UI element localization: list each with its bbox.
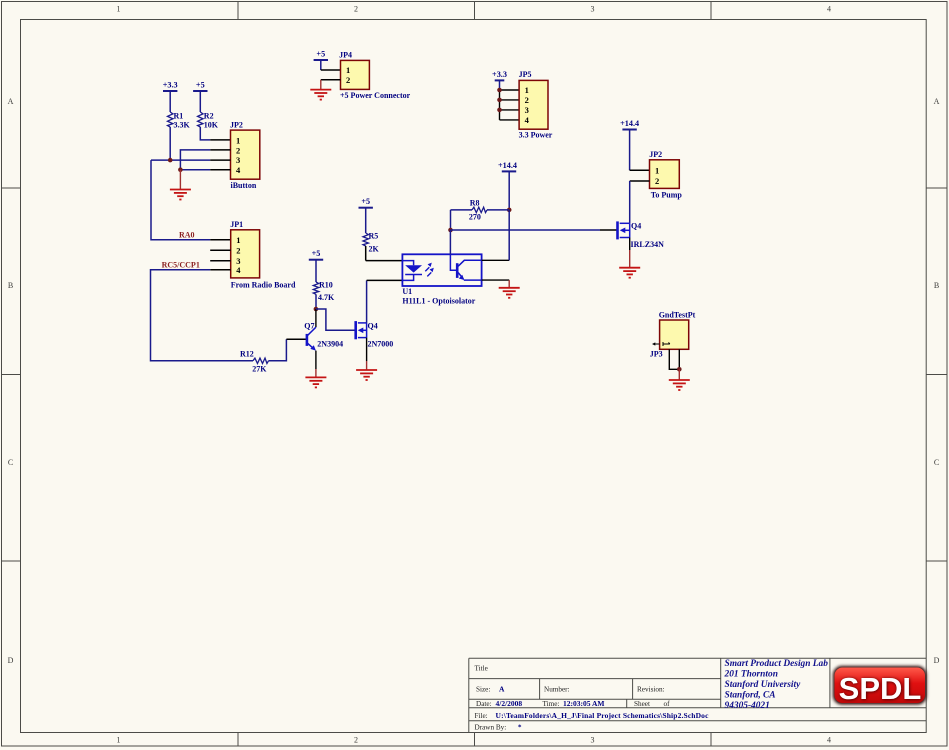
svg-text:4: 4 (236, 265, 241, 275)
wire Q6 drain to opto cathode (367, 280, 403, 323)
svg-text:GndTestPt: GndTestPt (659, 311, 696, 320)
power +5 (R5) (359, 197, 373, 233)
svg-text:1: 1 (117, 736, 121, 745)
wire gate node to U1 base (449, 230, 451, 254)
pin JP1-3 stub (210, 260, 231, 262)
svg-text:2K: 2K (369, 245, 380, 254)
svg-text:R1: R1 (174, 112, 184, 121)
svg-text:2: 2 (354, 5, 358, 14)
junction JP5 pin1 (497, 88, 502, 93)
junction at iButton gnd (178, 167, 183, 172)
svg-text:D: D (8, 656, 14, 665)
svg-text:JP1: JP1 (230, 220, 243, 229)
wire JP2 pin4 (180, 169, 230, 171)
resistor R1 (168, 112, 191, 130)
op-amp U1 H11L1 optoisolator box (402, 254, 481, 305)
svg-text:D: D (934, 656, 940, 665)
svg-text:Title: Title (475, 665, 488, 673)
U1 LED (402, 261, 422, 281)
wire JP3 gnd stem (678, 369, 680, 380)
svg-text:27K: 27K (252, 365, 267, 374)
pin JP1-2 stub (210, 249, 231, 251)
svg-text:U:\TeamFolders\A_H_J\Final Pro: U:\TeamFolders\A_H_J\Final Project Schem… (496, 711, 710, 720)
ground iButton (170, 190, 191, 200)
pin JP3-1 marker (652, 342, 670, 346)
wire JP5 pin3 (500, 109, 520, 111)
transistor Q6 2N7000 (mosfet) (356, 321, 394, 348)
wire R8 left leg (450, 210, 452, 230)
svg-text:iButton: iButton (231, 181, 257, 190)
wire to JP2 pump pin1 (630, 169, 650, 171)
power +14.4 (pump) (620, 119, 639, 170)
junction R1/pin3 (168, 158, 173, 163)
svg-text:Size:: Size: (476, 686, 490, 694)
svg-text:4: 4 (827, 736, 831, 745)
svg-text:2N7000: 2N7000 (368, 339, 394, 348)
svg-text:1: 1 (525, 85, 529, 95)
wire JP5 pin4 (500, 119, 520, 121)
wire JP2 pin2 to gnd link (180, 150, 230, 170)
wire U1 emitter to gnd (482, 280, 510, 288)
svg-text:1: 1 (346, 65, 350, 75)
svg-text:+5 Power Connector: +5 Power Connector (340, 91, 411, 100)
wire net RA0 (151, 160, 231, 240)
wire R5 to opto anode (366, 246, 403, 261)
U1 light arrows (425, 263, 434, 277)
svg-text:3: 3 (591, 736, 595, 745)
wire JP4 pin2 to gnd (321, 80, 341, 90)
junction JP3 gnd (677, 367, 682, 372)
connector JP2 iButton (230, 121, 260, 191)
svg-text:R8: R8 (470, 198, 480, 207)
SPDL logo (833, 666, 927, 707)
power +3.3 (JP5) (492, 70, 507, 90)
svg-text:RC5/CCP1: RC5/CCP1 (162, 261, 200, 270)
title block fields (475, 665, 710, 732)
wire U1 collector (482, 259, 510, 261)
power +5 (R10) (309, 249, 323, 282)
ground JP4 (310, 90, 331, 100)
transistor Q7 2N3904 (304, 309, 343, 369)
svg-text:+3.3: +3.3 (163, 81, 178, 90)
wire iButton gnd stem (179, 170, 181, 190)
wire Q6 source (366, 338, 368, 361)
svg-text:3: 3 (525, 105, 529, 115)
wire to JP4 pin1 (321, 69, 341, 71)
resistor R10 (313, 281, 335, 303)
svg-text:Q4: Q4 (368, 322, 378, 331)
svg-text:A: A (934, 97, 940, 106)
wire R2 to JP2 pin1 (200, 127, 230, 140)
svg-text:3.3K: 3.3K (174, 121, 191, 130)
svg-text:+5: +5 (316, 50, 325, 59)
svg-text:of: of (664, 700, 671, 708)
svg-text:+3.3: +3.3 (492, 70, 507, 79)
svg-text:2: 2 (655, 176, 659, 186)
svg-text:Q4: Q4 (631, 221, 641, 230)
svg-text:B: B (934, 281, 939, 290)
wire JP3 to gnd (669, 349, 679, 369)
junction Q7 collector node (314, 307, 319, 312)
svg-text:Stanford, CA: Stanford, CA (725, 691, 776, 701)
svg-text:JP3: JP3 (650, 349, 663, 358)
svg-text:*: * (518, 724, 522, 732)
svg-text:10K: 10K (204, 121, 219, 130)
wire Q4 source (629, 238, 631, 251)
connector JP3 GndTestPt (650, 311, 696, 359)
svg-text:Drawn By:: Drawn By: (475, 724, 507, 732)
wire JP5 bus (499, 90, 501, 120)
svg-text:12:03:05 AM: 12:03:05 AM (563, 699, 604, 708)
wire net RC5/CCP1 (151, 270, 254, 361)
svg-text:IRLZ34N: IRLZ34N (631, 240, 665, 249)
svg-text:C: C (934, 458, 939, 467)
svg-text:R12: R12 (240, 350, 254, 359)
svg-text:Number:: Number: (544, 686, 570, 694)
connector JP2 To Pump (649, 150, 682, 199)
title block address (724, 659, 829, 711)
ground Q4 (619, 268, 640, 278)
connector JP4 +5 Power Connector (339, 50, 411, 100)
ground Q6 (356, 370, 377, 380)
resistor R8 (451, 198, 510, 221)
power +14.4 (R8 node) (498, 161, 517, 210)
ground Q7 (305, 377, 326, 387)
wire +14.4 node to U1 collector (508, 210, 510, 260)
svg-text:SPDL: SPDL (839, 671, 922, 706)
net label RA0 (179, 230, 195, 239)
svg-text:+14.4: +14.4 (498, 161, 517, 170)
wire Q4 gnd stem (629, 250, 631, 268)
svg-text:R5: R5 (369, 231, 379, 240)
svg-text:1: 1 (655, 165, 659, 175)
junction JP5 pin3 (497, 108, 502, 113)
svg-text:Sheet: Sheet (634, 700, 650, 708)
svg-text:+5: +5 (196, 81, 205, 90)
svg-text:A: A (8, 97, 14, 106)
svg-text:1: 1 (236, 235, 240, 245)
U1 phototransistor (450, 254, 481, 280)
wire JP2 pin3 / R1 node (151, 159, 231, 161)
ground JP3 (669, 380, 690, 390)
svg-text:2: 2 (236, 246, 240, 256)
wire R12 to Q7 base (269, 339, 307, 361)
svg-text:3: 3 (591, 5, 595, 14)
svg-text:RA0: RA0 (179, 230, 195, 239)
power +5 (JP4) (314, 50, 328, 71)
svg-text:2: 2 (525, 95, 529, 105)
wire Q7 gnd stem (315, 369, 317, 377)
svg-text:JP2: JP2 (649, 150, 662, 159)
svg-text:A: A (499, 685, 505, 694)
svg-text:2: 2 (236, 146, 240, 156)
connector JP1 From Radio Board (230, 220, 296, 289)
svg-text:3.3 Power: 3.3 Power (519, 131, 553, 140)
resistor R12 (240, 350, 269, 374)
ground U1 emitter (499, 288, 520, 298)
svg-text:C: C (8, 458, 13, 467)
svg-text:Smart Product Design Lab: Smart Product Design Lab (725, 659, 829, 669)
junction JP5 pin2 (497, 98, 502, 103)
transistor Q4 IRLZ34N (mosfet) (618, 221, 665, 249)
svg-text:+14.4: +14.4 (620, 119, 639, 128)
power +5 (R2 pullup) (193, 81, 207, 113)
svg-text:2: 2 (346, 75, 350, 85)
wire R1 to node (169, 127, 171, 160)
svg-text:Q7: Q7 (304, 322, 314, 331)
power +3.3 (R1 pullup) (163, 81, 178, 113)
net label RC5/CCP1 (162, 261, 200, 270)
wire Q7 node to Q6 gate (316, 309, 356, 330)
svg-text:Revision:: Revision: (637, 686, 665, 694)
svg-text:+5: +5 (361, 197, 370, 206)
svg-text:R2: R2 (204, 112, 214, 121)
svg-text:270: 270 (469, 212, 481, 221)
svg-text:H11L1 - Optoisolator: H11L1 - Optoisolator (402, 297, 475, 306)
svg-text:2: 2 (354, 736, 358, 745)
svg-text:2N3904: 2N3904 (317, 339, 343, 348)
svg-text:1: 1 (117, 5, 121, 14)
svg-text:+5: +5 (312, 249, 321, 258)
svg-text:3: 3 (236, 155, 240, 165)
wire JP5 pin1 (500, 89, 520, 91)
svg-text:4/2/2008: 4/2/2008 (496, 699, 523, 708)
resistor R5 (363, 231, 380, 253)
svg-text:4.7K: 4.7K (318, 293, 335, 302)
wire gate node to Q4 gate (451, 229, 618, 231)
junction R8 right (507, 208, 512, 213)
wire JP5 pin2 (500, 99, 520, 101)
wire JP2 pin2 to Q4 drain (630, 181, 650, 223)
svg-text:Stanford University: Stanford University (725, 680, 802, 690)
svg-text:File:: File: (475, 712, 488, 720)
svg-text:JP5: JP5 (519, 70, 532, 79)
svg-text:To Pump: To Pump (651, 191, 683, 200)
svg-text:4: 4 (525, 115, 530, 125)
svg-text:JP4: JP4 (339, 50, 352, 59)
svg-text:From Radio Board: From Radio Board (231, 280, 296, 289)
svg-text:U1: U1 (402, 287, 412, 296)
wire Q6 gnd stem (366, 361, 368, 370)
title block grid (469, 658, 926, 732)
svg-text:JP2: JP2 (230, 121, 243, 130)
svg-text:94305-4021: 94305-4021 (725, 701, 770, 711)
svg-text:201 Thornton: 201 Thornton (724, 670, 778, 680)
svg-text:4: 4 (827, 5, 831, 14)
svg-text:1: 1 (236, 136, 240, 146)
svg-text:B: B (8, 281, 13, 290)
connector JP5 3.3 Power (519, 70, 553, 140)
junction gate node (448, 228, 453, 233)
svg-text:Date:: Date: (476, 700, 492, 708)
svg-text:Time:: Time: (543, 700, 560, 708)
svg-text:R10: R10 (319, 281, 333, 290)
wire R10 to node (315, 294, 317, 309)
resistor R2 (198, 112, 219, 130)
